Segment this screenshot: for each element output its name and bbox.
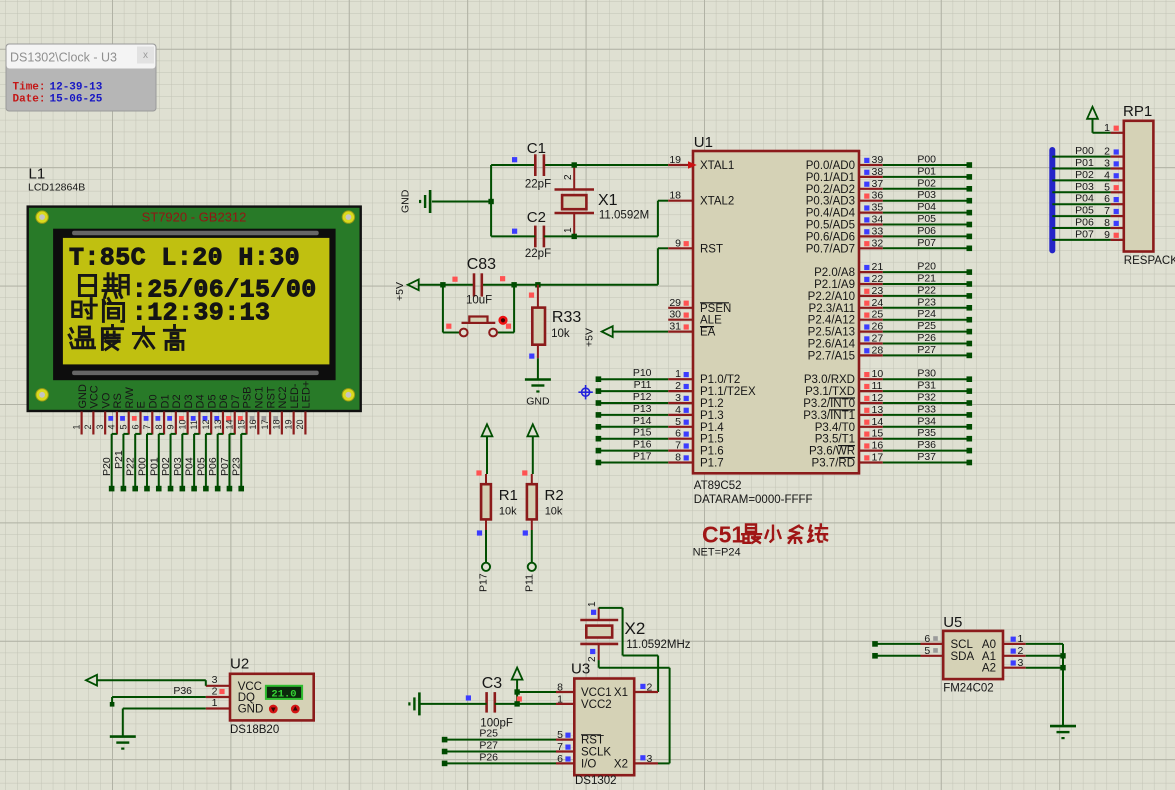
svg-text:VO: VO bbox=[100, 392, 112, 408]
U5 pin stubs bbox=[921, 644, 1026, 668]
svg-text:15-06-25: 15-06-25 bbox=[50, 94, 103, 106]
power +5V arrow U3 bbox=[512, 668, 523, 704]
svg-text:P32: P32 bbox=[917, 392, 936, 404]
svg-text:11.0592M: 11.0592M bbox=[599, 210, 649, 222]
svg-text:P04: P04 bbox=[917, 201, 936, 213]
svg-text:8: 8 bbox=[154, 424, 164, 429]
svg-text:15: 15 bbox=[236, 419, 246, 429]
RP1 net labels P00..P07 bbox=[1075, 145, 1094, 240]
svg-text:22pF: 22pF bbox=[525, 248, 551, 260]
svg-text:RP1: RP1 bbox=[1123, 103, 1152, 120]
svg-text:22: 22 bbox=[872, 273, 884, 285]
U1 right pin numbers bbox=[872, 154, 884, 464]
svg-text:P1.0/T2: P1.0/T2 bbox=[700, 374, 740, 386]
svg-text:D6: D6 bbox=[218, 394, 230, 408]
svg-text:P0.6/AD6: P0.6/AD6 bbox=[806, 231, 855, 243]
svg-text:A2: A2 bbox=[982, 663, 996, 675]
svg-text:P31: P31 bbox=[917, 380, 936, 392]
svg-text:SCLK: SCLK bbox=[581, 747, 611, 759]
C83 state squares bbox=[452, 276, 505, 282]
svg-text:RS: RS bbox=[112, 393, 124, 408]
ground left of C3 bbox=[409, 692, 419, 715]
svg-text:P3.1/TXD: P3.1/TXD bbox=[805, 386, 855, 398]
svg-text:P25: P25 bbox=[479, 728, 498, 740]
svg-text:P36: P36 bbox=[173, 685, 192, 697]
svg-text:VCC1: VCC1 bbox=[581, 687, 612, 699]
svg-text:P10: P10 bbox=[633, 367, 652, 379]
svg-text:P21: P21 bbox=[113, 450, 125, 469]
svg-text:10k: 10k bbox=[545, 506, 563, 518]
svg-text:P1.1/T2EX: P1.1/T2EX bbox=[700, 386, 756, 398]
LCD pin state indicator squares bbox=[108, 416, 278, 421]
svg-text:1: 1 bbox=[1018, 633, 1024, 645]
svg-text:P21: P21 bbox=[917, 273, 936, 285]
svg-text:P0.2/AD2: P0.2/AD2 bbox=[806, 184, 855, 196]
svg-text:P11: P11 bbox=[523, 574, 535, 592]
svg-text:LED-: LED- bbox=[289, 383, 301, 408]
svg-text:PSEN: PSEN bbox=[700, 303, 731, 315]
wire R33 to ground bbox=[537, 358, 539, 379]
svg-text:P2.6/A14: P2.6/A14 bbox=[808, 339, 856, 351]
svg-text:27: 27 bbox=[872, 333, 884, 345]
svg-text:21.0: 21.0 bbox=[271, 688, 296, 700]
C1 state square bbox=[512, 157, 517, 162]
svg-text:X1: X1 bbox=[598, 192, 618, 209]
wire R1 to terminal bbox=[482, 530, 490, 571]
svg-text:P22: P22 bbox=[125, 457, 137, 476]
U3 pin numbers bbox=[557, 682, 652, 765]
svg-text:5: 5 bbox=[675, 416, 681, 428]
svg-text:P07: P07 bbox=[917, 237, 936, 249]
svg-text:P06: P06 bbox=[207, 457, 219, 476]
svg-text:R2: R2 bbox=[545, 487, 564, 504]
U3 pin state squares bbox=[565, 684, 645, 762]
svg-text:34: 34 bbox=[872, 214, 884, 226]
svg-text:9: 9 bbox=[675, 237, 681, 249]
svg-text:19: 19 bbox=[283, 419, 293, 429]
svg-text:RST: RST bbox=[265, 386, 277, 408]
svg-text:P05: P05 bbox=[195, 457, 207, 476]
U2 temperature display 21.0 bbox=[266, 686, 302, 701]
LCD module L1 LCD12864B bbox=[28, 207, 361, 411]
svg-text:P1.7: P1.7 bbox=[700, 458, 724, 470]
svg-text:23: 23 bbox=[872, 285, 884, 297]
svg-text:1: 1 bbox=[212, 697, 218, 709]
svg-text:R1: R1 bbox=[499, 487, 518, 504]
svg-text:P2.1/A9: P2.1/A9 bbox=[814, 279, 855, 291]
svg-text:NET=P24: NET=P24 bbox=[693, 547, 741, 559]
U1 right pin stubs bbox=[859, 165, 883, 463]
net label NET=P24 bbox=[693, 547, 741, 559]
svg-text:5: 5 bbox=[557, 729, 563, 741]
svg-text:XTAL1: XTAL1 bbox=[700, 160, 734, 172]
bus bar bbox=[1049, 147, 1055, 253]
svg-text:37: 37 bbox=[872, 178, 884, 190]
svg-text:P24: P24 bbox=[917, 308, 936, 320]
X2 pin state squares bbox=[590, 610, 596, 654]
svg-text:P33: P33 bbox=[917, 403, 936, 415]
svg-text:P34: P34 bbox=[917, 415, 936, 427]
svg-text:10k: 10k bbox=[551, 328, 570, 340]
svg-text:DQ: DQ bbox=[238, 692, 255, 704]
U1 P1 wires to nets bbox=[596, 376, 669, 465]
svg-text:RST: RST bbox=[581, 735, 604, 747]
svg-text:P3.7/RD: P3.7/RD bbox=[812, 458, 855, 470]
temperature sensor U2 DS18B20 body bbox=[230, 674, 314, 736]
svg-text:6: 6 bbox=[924, 633, 930, 645]
svg-text:D3: D3 bbox=[183, 394, 195, 408]
svg-text:P02: P02 bbox=[1075, 169, 1094, 181]
button state squares bbox=[446, 324, 511, 329]
svg-text:P04: P04 bbox=[184, 457, 196, 476]
svg-text:C2: C2 bbox=[527, 209, 546, 226]
capacitor C3 bbox=[480, 675, 513, 730]
LCD pin numbers 1-20 bbox=[71, 419, 305, 429]
svg-text:RST: RST bbox=[700, 243, 723, 255]
svg-text:P1.3: P1.3 bbox=[700, 410, 724, 422]
wire left vertical C1-C2 bbox=[490, 165, 492, 236]
R33 state squares bbox=[529, 293, 535, 359]
svg-text:GND: GND bbox=[526, 396, 550, 408]
svg-text:SDA: SDA bbox=[951, 651, 975, 663]
svg-text:P3.2/INT0: P3.2/INT0 bbox=[803, 398, 855, 410]
svg-text:3: 3 bbox=[212, 674, 218, 686]
svg-text:P0.4/AD4: P0.4/AD4 bbox=[806, 208, 856, 220]
net label P36 bbox=[173, 685, 192, 697]
C2 state square bbox=[512, 229, 517, 234]
capacitor C1 bbox=[525, 140, 551, 191]
U1 left pin names bbox=[700, 160, 756, 470]
svg-text:D5: D5 bbox=[206, 394, 218, 408]
svg-text:P1.6: P1.6 bbox=[700, 446, 724, 458]
wire R2 to terminal bbox=[528, 530, 536, 571]
svg-text:P14: P14 bbox=[633, 415, 652, 427]
ground GND left of C1 bbox=[400, 189, 492, 213]
svg-text:P2.3/A11: P2.3/A11 bbox=[809, 303, 855, 315]
svg-text:P37: P37 bbox=[917, 451, 936, 463]
LCD text line3 time 12:39:13 bbox=[73, 299, 271, 328]
svg-text:30: 30 bbox=[669, 309, 681, 321]
power +5V arrow EA bbox=[584, 326, 669, 347]
EEPROM U5 FM24C02 body bbox=[943, 631, 1003, 695]
svg-text:T:85C L:20 H:30: T:85C L:20 H:30 bbox=[69, 244, 300, 273]
U2 DQ state square bbox=[219, 689, 224, 694]
MCU U1 AT89C52 body bbox=[693, 151, 859, 506]
wire X2 pin1 to U3 X1 bbox=[599, 608, 658, 692]
svg-text:GND: GND bbox=[238, 704, 264, 716]
junction X1 pin2 bbox=[572, 162, 577, 167]
svg-text:9: 9 bbox=[166, 424, 176, 429]
LCD text line1 T:85C L:20 H:30 bbox=[69, 244, 300, 273]
svg-text:P01: P01 bbox=[1075, 157, 1094, 169]
DS1302 clock popup window bbox=[6, 44, 156, 111]
svg-text:PSB: PSB bbox=[242, 386, 254, 408]
svg-text:C51: C51 bbox=[702, 522, 744, 548]
svg-text:P3.6/WR: P3.6/WR bbox=[809, 446, 855, 458]
svg-text:P1.5: P1.5 bbox=[700, 434, 724, 446]
svg-text:P3.3/INT1: P3.3/INT1 bbox=[803, 410, 855, 422]
wire U2 GND bbox=[123, 709, 206, 737]
svg-text:P36: P36 bbox=[917, 439, 936, 451]
resistor R1 bbox=[481, 474, 518, 530]
svg-text:D7: D7 bbox=[230, 394, 242, 408]
svg-text:4: 4 bbox=[107, 424, 117, 429]
svg-text:2: 2 bbox=[1018, 645, 1024, 657]
wire X2 pin2 to U3 X2 bbox=[599, 660, 670, 763]
svg-text:D2: D2 bbox=[171, 394, 183, 408]
svg-text:R/W: R/W bbox=[124, 387, 136, 409]
svg-text:E: E bbox=[136, 401, 148, 408]
EEPROM U5 label bbox=[943, 614, 962, 631]
svg-text:VCC: VCC bbox=[238, 681, 262, 693]
svg-text:24: 24 bbox=[872, 297, 884, 309]
svg-text:P17: P17 bbox=[478, 573, 490, 592]
svg-text:7: 7 bbox=[557, 741, 563, 753]
svg-text:1: 1 bbox=[71, 424, 81, 429]
svg-text:19: 19 bbox=[669, 154, 681, 166]
RP1 pin state squares bbox=[1114, 126, 1119, 238]
svg-text:36: 36 bbox=[872, 190, 884, 202]
power +5V arrow R2 bbox=[527, 424, 538, 474]
ground below R33 bbox=[525, 380, 551, 408]
LCD text line2 date 25/06/15/00 bbox=[79, 274, 316, 305]
svg-text:17: 17 bbox=[872, 452, 884, 464]
U1 right pin state squares bbox=[864, 158, 869, 461]
svg-text:P07: P07 bbox=[219, 457, 231, 476]
svg-text:33: 33 bbox=[872, 225, 884, 237]
LCD wires to P20..P23 nets bbox=[109, 434, 247, 492]
svg-text:32: 32 bbox=[872, 237, 884, 249]
svg-text:2: 2 bbox=[675, 380, 681, 392]
push button (reset) bbox=[460, 316, 508, 337]
svg-text:D1: D1 bbox=[159, 394, 171, 408]
svg-text:P2.2/A10: P2.2/A10 bbox=[808, 291, 855, 303]
svg-text:P16: P16 bbox=[633, 439, 652, 451]
svg-text:P0.7/AD7: P0.7/AD7 bbox=[806, 243, 855, 255]
crystal X2 bbox=[580, 601, 691, 662]
RP1 pin stubs bbox=[1111, 133, 1124, 240]
U1 P1 net labels bbox=[633, 367, 652, 462]
svg-text:EA: EA bbox=[700, 327, 716, 339]
crystal X1 bbox=[555, 165, 650, 236]
wire button left branch bbox=[443, 285, 460, 333]
svg-text:GND: GND bbox=[77, 384, 89, 409]
svg-text:12: 12 bbox=[872, 392, 884, 404]
svg-text:U1: U1 bbox=[694, 134, 713, 151]
svg-text:C1: C1 bbox=[527, 140, 546, 157]
C3 state square bbox=[466, 695, 471, 700]
svg-text:2: 2 bbox=[563, 174, 574, 180]
svg-text:13: 13 bbox=[213, 419, 223, 429]
wire U2 DQ net P36 bbox=[110, 697, 206, 707]
junction button left bbox=[440, 282, 445, 287]
svg-text:C3: C3 bbox=[482, 675, 503, 692]
svg-text:R33: R33 bbox=[552, 309, 581, 326]
svg-text:2: 2 bbox=[83, 424, 93, 429]
svg-text:GND: GND bbox=[400, 189, 412, 213]
svg-text:P06: P06 bbox=[1075, 217, 1094, 229]
wires U5 SCL SDA bbox=[872, 641, 920, 659]
U1 XTAL1 clock arrow bbox=[688, 161, 697, 169]
popup time text bbox=[13, 82, 103, 94]
svg-text:P27: P27 bbox=[917, 344, 936, 356]
svg-text:3: 3 bbox=[675, 392, 681, 404]
power arrow U2 VCC bbox=[86, 675, 206, 686]
svg-text:U3: U3 bbox=[571, 661, 590, 678]
svg-text:X1: X1 bbox=[614, 687, 628, 699]
svg-text:16: 16 bbox=[872, 440, 884, 452]
svg-text:6: 6 bbox=[130, 424, 140, 429]
ground below U2 bbox=[110, 737, 136, 749]
svg-text:7: 7 bbox=[142, 424, 152, 429]
svg-text:11.0592MHz: 11.0592MHz bbox=[626, 639, 691, 651]
svg-text:7: 7 bbox=[675, 440, 681, 452]
svg-text:P02: P02 bbox=[917, 177, 936, 189]
wire reset rail bbox=[419, 248, 669, 284]
svg-text:3: 3 bbox=[95, 424, 105, 429]
junction U5 A1 bbox=[1060, 653, 1065, 658]
svg-text:P3.0/RXD: P3.0/RXD bbox=[804, 374, 855, 386]
svg-text:10: 10 bbox=[177, 419, 187, 429]
RP1 wires to bus bbox=[1052, 157, 1110, 240]
svg-text:10: 10 bbox=[872, 368, 884, 380]
U5 pin numbers bbox=[924, 633, 1023, 669]
svg-text:P0.1/AD1: P0.1/AD1 bbox=[806, 172, 855, 184]
svg-text:1: 1 bbox=[587, 601, 598, 607]
junction GND row bbox=[488, 199, 493, 204]
resistor pack RP1 label bbox=[1123, 103, 1152, 120]
power +5V arrow RP1 pin1 bbox=[1087, 107, 1111, 133]
R1 state squares bbox=[476, 470, 482, 535]
net labels P25 P27 P26 bbox=[479, 728, 498, 764]
svg-text:P27: P27 bbox=[479, 740, 498, 752]
svg-text:P02: P02 bbox=[160, 457, 172, 476]
svg-text:P22: P22 bbox=[917, 284, 936, 296]
svg-text:D4: D4 bbox=[195, 394, 207, 408]
svg-text:VCC2: VCC2 bbox=[581, 699, 612, 711]
svg-text:P2.4/A12: P2.4/A12 bbox=[808, 315, 855, 327]
svg-text:29: 29 bbox=[669, 297, 681, 309]
RTC U3 DS1302 body bbox=[574, 679, 634, 788]
svg-text:C83: C83 bbox=[467, 256, 496, 273]
svg-text:2: 2 bbox=[647, 682, 653, 694]
svg-text:P13: P13 bbox=[633, 403, 652, 415]
svg-text:NC2: NC2 bbox=[277, 386, 289, 408]
svg-text:X2: X2 bbox=[614, 758, 628, 770]
svg-text:P3.4/T0: P3.4/T0 bbox=[815, 422, 855, 434]
svg-text:DATARAM=0000-FFFF: DATARAM=0000-FFFF bbox=[694, 494, 813, 506]
U1 left pin stubs bbox=[668, 165, 693, 463]
svg-text:P2.0/A8: P2.0/A8 bbox=[814, 267, 855, 279]
junction X1 pin1 bbox=[572, 234, 577, 239]
U1 right pin names bbox=[803, 160, 855, 470]
svg-text:14: 14 bbox=[872, 416, 884, 428]
svg-text:28: 28 bbox=[872, 344, 884, 356]
U5 pin state squares bbox=[933, 636, 1016, 665]
svg-text:10k: 10k bbox=[499, 506, 517, 518]
LCD pin name labels bbox=[77, 381, 313, 409]
svg-text:SCL: SCL bbox=[951, 639, 974, 651]
svg-text:21: 21 bbox=[872, 261, 884, 273]
svg-text:A0: A0 bbox=[982, 639, 996, 651]
wire C3 row bbox=[420, 703, 556, 705]
svg-text:11: 11 bbox=[872, 380, 883, 392]
svg-text:P05: P05 bbox=[917, 213, 936, 225]
svg-text:P26: P26 bbox=[479, 751, 498, 763]
U2 pin stubs and numbers bbox=[206, 674, 230, 709]
svg-text:P17: P17 bbox=[633, 451, 652, 463]
svg-text:P0.3/AD3: P0.3/AD3 bbox=[806, 196, 855, 208]
svg-text:15: 15 bbox=[872, 428, 884, 440]
terminal label P17 bbox=[478, 573, 490, 592]
junction VCC1 bbox=[514, 689, 519, 694]
svg-text:8: 8 bbox=[675, 452, 681, 464]
svg-text:4: 4 bbox=[675, 404, 681, 416]
svg-text:P15: P15 bbox=[633, 427, 652, 439]
svg-text:6: 6 bbox=[557, 753, 563, 765]
svg-text:P25: P25 bbox=[917, 320, 936, 332]
origin marker bbox=[578, 385, 592, 399]
power +5V arrow R1 bbox=[482, 424, 493, 474]
svg-text:12-39-13: 12-39-13 bbox=[50, 82, 103, 94]
U1 right net labels bbox=[917, 154, 936, 464]
terminal label P11 bbox=[523, 574, 535, 592]
svg-text:1: 1 bbox=[563, 227, 574, 233]
svg-text:P0.0/AD0: P0.0/AD0 bbox=[806, 160, 855, 172]
power +5V arrow reset rail bbox=[394, 279, 419, 301]
wire XTAL1 row bbox=[491, 164, 668, 166]
junction U5 A2 bbox=[1060, 665, 1065, 670]
ground below U5 bbox=[1050, 726, 1076, 738]
svg-text:12: 12 bbox=[201, 419, 211, 429]
svg-text:18: 18 bbox=[272, 419, 282, 429]
RTC U3 label bbox=[571, 661, 590, 678]
svg-text:D0: D0 bbox=[147, 394, 159, 408]
U3 pin stubs bbox=[556, 692, 658, 763]
svg-text:P07: P07 bbox=[1075, 228, 1094, 240]
svg-text:LED+: LED+ bbox=[301, 381, 313, 409]
svg-text:x: x bbox=[143, 50, 148, 61]
wire U3 VCC1 bbox=[517, 691, 556, 693]
svg-text:10uF: 10uF bbox=[466, 295, 492, 307]
svg-text:U2: U2 bbox=[230, 655, 249, 672]
op-amp U1 reference label bbox=[694, 134, 713, 151]
svg-text:DS1302\Clock - U3: DS1302\Clock - U3 bbox=[10, 51, 117, 65]
svg-text:U5: U5 bbox=[943, 614, 962, 631]
svg-text:18: 18 bbox=[669, 190, 681, 202]
temperature sensor U2 label bbox=[230, 655, 249, 672]
svg-text:P03: P03 bbox=[1075, 181, 1094, 193]
svg-text:35: 35 bbox=[872, 202, 884, 214]
junction R33 top bbox=[535, 282, 540, 287]
svg-text:ST7920 - GB2312: ST7920 - GB2312 bbox=[142, 209, 247, 224]
svg-text:P1.4: P1.4 bbox=[700, 422, 724, 434]
svg-text:P2.7/A15: P2.7/A15 bbox=[808, 350, 855, 362]
svg-text:P2.5/A13: P2.5/A13 bbox=[808, 327, 855, 339]
svg-text:P0.5/AD5: P0.5/AD5 bbox=[806, 220, 855, 232]
svg-text:2: 2 bbox=[212, 685, 218, 697]
RP1 pin numbers bbox=[1104, 122, 1110, 241]
svg-text::12:39:13: :12:39:13 bbox=[132, 299, 271, 328]
svg-text:L1: L1 bbox=[29, 166, 46, 183]
junction VCC2 bbox=[514, 701, 519, 706]
svg-text:VCC: VCC bbox=[89, 385, 101, 408]
svg-text:P23: P23 bbox=[231, 457, 243, 476]
svg-text:ALE: ALE bbox=[700, 315, 722, 327]
R2 state squares bbox=[522, 470, 528, 535]
junction button right bbox=[511, 282, 516, 287]
svg-text:P12: P12 bbox=[633, 391, 652, 403]
